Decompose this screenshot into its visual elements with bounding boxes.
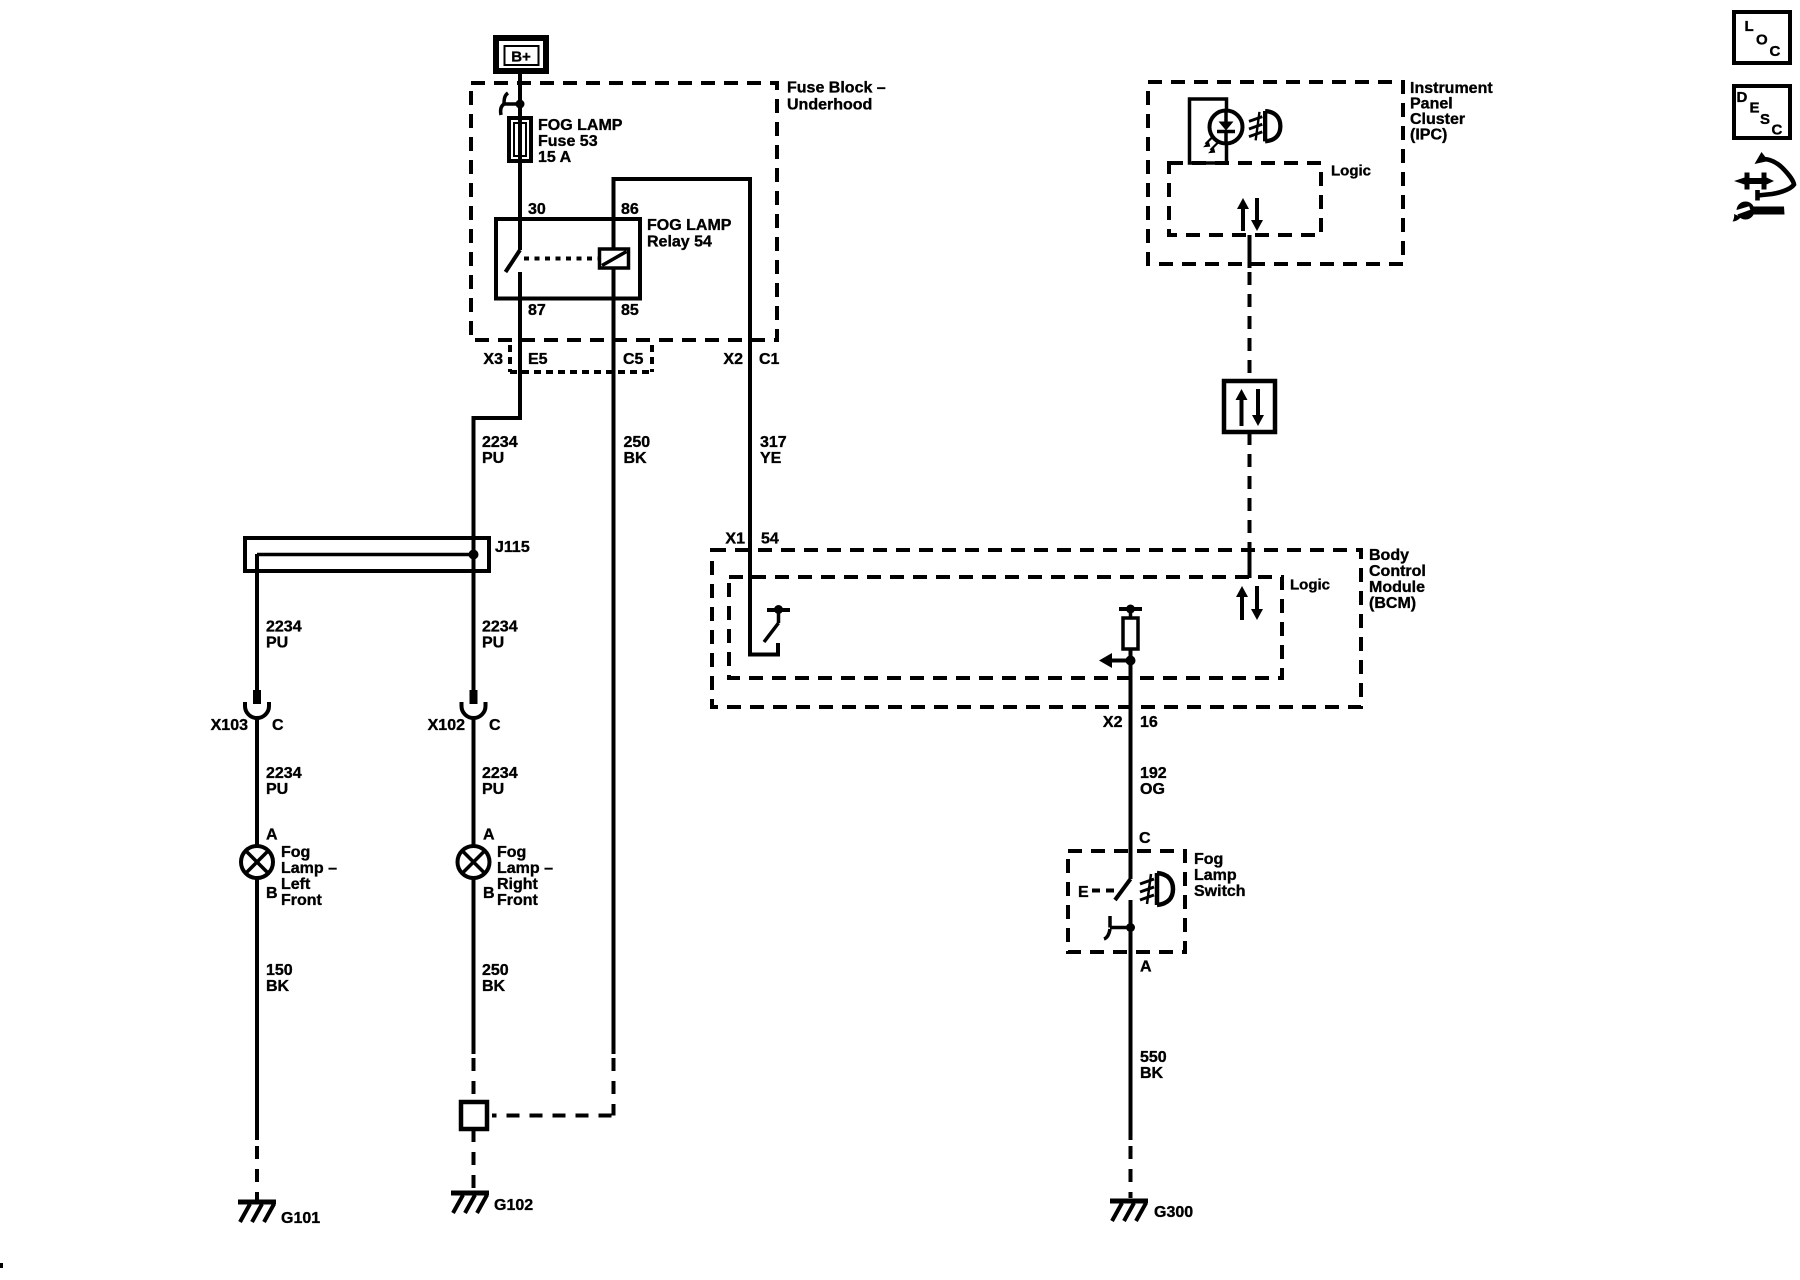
wire 192 OG BCM to fog lamp switch [1129, 707, 1133, 879]
IPC logic arrows [1237, 198, 1263, 231]
svg-text:Lamp –: Lamp – [497, 860, 553, 877]
svg-text:Module: Module [1369, 579, 1425, 596]
wire 317 YE from C1 to BCM [748, 340, 752, 552]
ground G101 [238, 1202, 276, 1222]
wire switch internal [1129, 900, 1133, 952]
svg-text:2234: 2234 [482, 434, 518, 451]
svg-text:Logic: Logic [1290, 577, 1330, 594]
svg-text:Lamp: Lamp [1194, 867, 1237, 884]
svg-text:A: A [1140, 959, 1152, 976]
svg-text:C: C [1770, 43, 1781, 60]
svg-text:BK: BK [1140, 1065, 1164, 1082]
svg-text:Fog: Fog [1194, 851, 1223, 868]
svg-text:C1: C1 [759, 351, 780, 368]
svg-text:Fog: Fog [281, 844, 310, 861]
svg-text:30: 30 [528, 201, 546, 218]
svg-text:250: 250 [624, 434, 651, 451]
svg-text:FOG LAMP: FOG LAMP [647, 217, 732, 234]
svg-text:2234: 2234 [482, 765, 518, 782]
wire X103 to left lamp [255, 717, 259, 845]
wire J115 left branch 2234 PU [255, 554, 259, 691]
svg-text:Switch: Switch [1194, 883, 1246, 900]
navigation arrow icon [1733, 152, 1795, 222]
wire 150 BK left lamp to G101 [255, 879, 259, 1140]
svg-text:YE: YE [760, 450, 782, 467]
inline splice square [461, 1102, 487, 1129]
svg-text:L: L [1745, 18, 1754, 35]
wire pin87 to E5 [518, 272, 522, 340]
IPC logic box [1169, 163, 1371, 236]
wire X102 to right lamp [472, 717, 476, 845]
svg-text:A: A [266, 827, 278, 844]
relay coil wire segments [612, 219, 616, 299]
wire pin86 loop to C1 [614, 179, 751, 340]
fog lamp right front [458, 846, 490, 878]
fog lamp switch box [1068, 851, 1246, 952]
svg-text:BK: BK [266, 978, 290, 995]
svg-text:(BCM): (BCM) [1369, 595, 1416, 612]
wire IPC logic to connector (serial data) [1248, 235, 1252, 268]
svg-text:G101: G101 [281, 1210, 320, 1227]
svg-text:E: E [1750, 100, 1760, 117]
svg-text:E5: E5 [528, 351, 548, 368]
svg-text:PU: PU [266, 635, 288, 652]
svg-text:2234: 2234 [482, 619, 518, 636]
ground G300 [1110, 1201, 1148, 1221]
svg-text:G102: G102 [494, 1197, 533, 1214]
connector X2/X3 row box (dotted) [510, 345, 652, 372]
BCM input switch element [750, 552, 778, 655]
svg-text:X2: X2 [723, 351, 743, 368]
svg-text:Relay 54: Relay 54 [647, 234, 712, 251]
svg-text:Cluster: Cluster [1410, 111, 1465, 128]
svg-text:87: 87 [528, 302, 546, 319]
wire J115 right branch 2234 PU [472, 554, 476, 691]
svg-text:250: 250 [482, 962, 509, 979]
svg-text:Right: Right [497, 876, 539, 893]
IPC fog lamp icon [1249, 111, 1280, 141]
relay coil [600, 249, 629, 268]
BCM driver: resistor with actuator [1099, 605, 1142, 711]
svg-text:FOG LAMP: FOG LAMP [538, 117, 623, 134]
svg-text:X3: X3 [483, 351, 503, 368]
fuse block underhood box [471, 80, 886, 341]
relay link (dashed) [524, 257, 598, 261]
svg-text:317: 317 [760, 434, 787, 451]
svg-text:Front: Front [281, 892, 323, 909]
svg-text:B+: B+ [511, 49, 531, 66]
svg-text:86: 86 [621, 201, 639, 218]
svg-text:Fuse 53: Fuse 53 [538, 133, 598, 150]
wire connector to BCM [1248, 432, 1252, 547]
switch off-position bracket [1104, 916, 1135, 939]
svg-text:PU: PU [482, 635, 504, 652]
indicator loop rectangle [1190, 99, 1227, 163]
svg-text:2234: 2234 [266, 619, 302, 636]
svg-text:J115: J115 [495, 539, 530, 556]
svg-text:BK: BK [624, 450, 648, 467]
svg-text:X103: X103 [211, 717, 248, 734]
svg-text:A: A [483, 827, 495, 844]
wire 550 BK switch to G300 [1129, 952, 1133, 1140]
svg-text:E: E [1078, 884, 1089, 901]
wire pin85 to C5 [612, 299, 616, 341]
svg-text:550: 550 [1140, 1049, 1167, 1066]
svg-text:(IPC): (IPC) [1410, 127, 1447, 144]
svg-text:2234: 2234 [266, 765, 302, 782]
svg-text:O: O [1756, 31, 1768, 48]
svg-text:Body: Body [1369, 547, 1409, 564]
svg-text:Instrument: Instrument [1410, 80, 1493, 97]
svg-text:C: C [489, 717, 501, 734]
instrument panel cluster box [1148, 80, 1493, 264]
svg-text:B: B [266, 885, 278, 902]
svg-text:192: 192 [1140, 765, 1167, 782]
BCM logic box [729, 577, 1330, 679]
relay switch arm [506, 250, 521, 272]
fuse 53 [509, 117, 623, 250]
clip junction at fuse feed [501, 93, 525, 115]
svg-text:C: C [272, 717, 284, 734]
svg-text:150: 150 [266, 962, 293, 979]
svg-text:Panel: Panel [1410, 96, 1453, 113]
wire B+ to fuse [518, 74, 522, 118]
svg-text:Logic: Logic [1331, 163, 1371, 180]
svg-text:BK: BK [482, 978, 506, 995]
svg-text:Control: Control [1369, 563, 1426, 580]
page corner speck [0, 1263, 3, 1268]
BCM logic arrows [1236, 586, 1263, 620]
svg-text:C: C [1139, 830, 1151, 847]
switch fog icon [1140, 873, 1173, 905]
svg-text:16: 16 [1140, 714, 1158, 731]
svg-text:B: B [483, 885, 495, 902]
svg-text:15 A: 15 A [538, 149, 572, 166]
battery feed B+ [496, 38, 546, 71]
wire 250 BK from C5 down [612, 340, 616, 1054]
svg-text:Fuse Block –: Fuse Block – [787, 80, 886, 97]
body control module box [712, 547, 1426, 707]
wire 2234 PU from E5 to J115 [474, 340, 521, 556]
svg-text:C: C [1772, 122, 1783, 139]
svg-text:G300: G300 [1154, 1204, 1193, 1221]
switch arm [1115, 879, 1131, 900]
indicator LED [1203, 111, 1243, 154]
svg-text:85: 85 [621, 302, 639, 319]
LOC icon [1734, 12, 1790, 63]
connector X102 [462, 690, 486, 718]
svg-text:Lamp –: Lamp – [281, 860, 337, 877]
svg-text:S: S [1760, 111, 1770, 128]
fog lamp left front [241, 846, 273, 878]
connector X103 [245, 690, 269, 718]
DESC icon [1734, 86, 1790, 139]
relay box FOG LAMP Relay 54 [496, 217, 732, 299]
inline connector box with arrows [1224, 381, 1275, 432]
svg-text:Left: Left [281, 876, 311, 893]
svg-text:Front: Front [497, 892, 539, 909]
svg-text:PU: PU [266, 781, 288, 798]
ground G102 [451, 1193, 489, 1213]
svg-text:Underhood: Underhood [787, 97, 872, 114]
svg-text:Fog: Fog [497, 844, 526, 861]
svg-text:OG: OG [1140, 781, 1165, 798]
svg-text:54: 54 [761, 531, 779, 548]
svg-text:C5: C5 [623, 351, 644, 368]
svg-text:PU: PU [482, 781, 504, 798]
svg-text:PU: PU [482, 450, 504, 467]
svg-text:X2: X2 [1103, 714, 1123, 731]
wire splice square to G102 [472, 1129, 476, 1190]
wire 250 BK dashed from C5 to splice square [612, 1058, 616, 1116]
splice pack J115 [245, 538, 530, 571]
svg-text:X102: X102 [428, 717, 465, 734]
wire 250 BK right lamp down [472, 879, 476, 1054]
svg-text:D: D [1737, 89, 1748, 106]
svg-text:X1: X1 [725, 531, 745, 548]
